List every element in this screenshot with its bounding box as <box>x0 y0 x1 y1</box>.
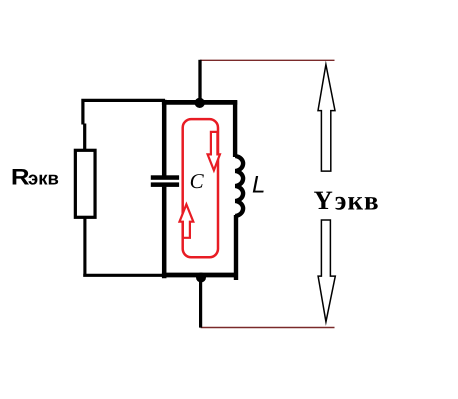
svg-text:экв: экв <box>28 168 59 189</box>
svg-text:Y: Y <box>314 185 333 215</box>
svg-text:C: C <box>190 169 205 193</box>
svg-text:L: L <box>252 172 265 199</box>
svg-text:экв: экв <box>335 186 380 216</box>
svg-text:R: R <box>11 165 30 190</box>
